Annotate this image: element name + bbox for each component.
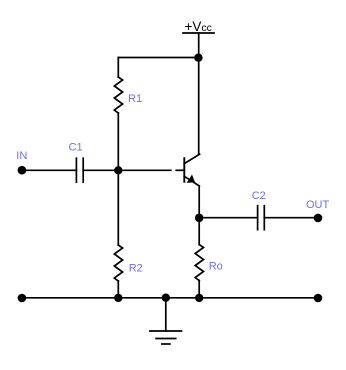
- resistor R1: [114, 77, 122, 113]
- capacitor C2: [258, 206, 265, 230]
- node rail ground junction: [162, 294, 170, 302]
- node IN terminal: [18, 166, 27, 175]
- wire R2 bottom to rail: [117, 281, 119, 298]
- node OUT terminal: [314, 214, 323, 223]
- svg-text:IN: IN: [16, 150, 27, 162]
- wire R1 top lead: [117, 58, 119, 78]
- wire emitter node to R0: [198, 218, 200, 245]
- wire Vcc feed vertical: [198, 33, 200, 58]
- node emitter junction: [195, 214, 204, 223]
- power rail +Vcc bar: [183, 32, 214, 34]
- wire Vcc node to R1 horizontal: [118, 57, 198, 59]
- wire emitter node to C2: [199, 217, 257, 219]
- node rail left terminal: [18, 294, 27, 303]
- wire C2 to OUT: [264, 217, 318, 219]
- wire collector column: [198, 58, 200, 155]
- wire ground rail: [22, 297, 318, 299]
- svg-text:OUT: OUT: [306, 199, 330, 211]
- svg-text:R1: R1: [128, 93, 142, 105]
- svg-text:C2: C2: [252, 190, 266, 202]
- node rail R2 junction: [114, 294, 122, 302]
- wire R2 top lead: [117, 170, 119, 245]
- wire C1 to base node: [83, 169, 118, 171]
- wire base node to transistor base: [118, 169, 171, 171]
- resistor R2: [114, 245, 122, 281]
- node rail right terminal: [314, 294, 323, 303]
- transistor Q1: [184, 154, 199, 186]
- node Vcc junction: [194, 54, 202, 62]
- svg-text:+Vcc: +Vcc: [185, 19, 212, 34]
- svg-text:C1: C1: [69, 141, 83, 153]
- node rail R0 junction: [195, 294, 203, 302]
- svg-text:Ro: Ro: [209, 261, 223, 273]
- svg-text:R2: R2: [129, 263, 143, 275]
- ground: [150, 298, 182, 344]
- wire emitter column: [198, 186, 200, 218]
- wire R0 bottom to rail: [198, 281, 200, 298]
- wire base lead segment: [175, 169, 184, 171]
- node base junction: [114, 166, 122, 174]
- capacitor C1: [76, 158, 83, 182]
- wire IN to C1: [22, 169, 77, 171]
- resistor R0: [195, 245, 203, 281]
- wire R1 bottom to base node: [117, 113, 119, 170]
